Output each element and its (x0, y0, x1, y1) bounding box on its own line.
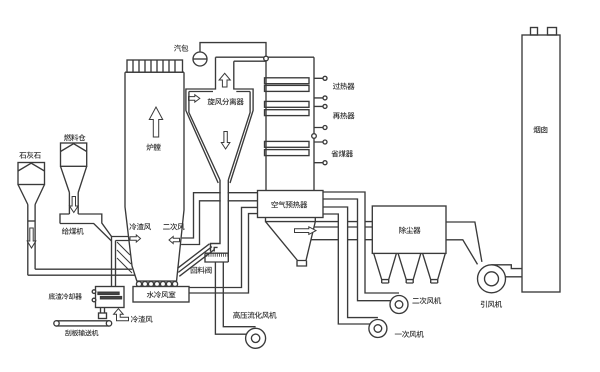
svg-text:引风机: 引风机 (480, 299, 502, 310)
cyclone gas outlet duct to backpass (wire) (216, 57, 315, 61)
water-cooled windbox 水冷风室 (133, 287, 189, 303)
svg-text:除尘器: 除尘器 (399, 225, 421, 236)
svg-text:刮板输送机: 刮板输送机 (65, 329, 99, 339)
slag cooler outlet (101, 308, 105, 314)
furnace up-flow arrow (149, 107, 162, 137)
limestone down-flow arrow (27, 228, 36, 248)
svg-text:一次风机: 一次风机 (395, 329, 425, 340)
svg-text:冷渣风: 冷渣风 (129, 222, 151, 233)
HP fluidizing fan 高压流化风机 (246, 328, 266, 348)
flue duct to dust collector (wire) (311, 222, 372, 240)
cyclone separator 旋风分离器 body (186, 57, 253, 183)
bubble caps on grate (136, 281, 177, 286)
cold slag air curved arrow (114, 309, 129, 321)
svg-text:空气预热器: 空气预热器 (271, 200, 308, 211)
hot air duct B to secondary fan (wire) (323, 192, 399, 301)
superheater taps (314, 76, 327, 100)
secondary fan 二次风机 (390, 296, 408, 314)
hot air duct A to primary fan (wire) (323, 207, 378, 324)
loop seal 回料阀 trough (205, 253, 228, 262)
ID fan outlet duct (wire) (492, 265, 523, 277)
HP fluidizing air duct (wire) (215, 262, 255, 334)
steam pipe drum to backpass (wire) (200, 43, 266, 57)
cyclone inlet arrow (right) (189, 95, 200, 102)
fuel down-flow arrow (70, 197, 79, 213)
svg-text:汽包: 汽包 (174, 43, 189, 54)
reheater taps (312, 104, 327, 138)
cold slag air arrow (right) (130, 235, 141, 242)
svg-text:底渣冷却器: 底渣冷却器 (48, 292, 82, 302)
node on backpass top (264, 56, 269, 61)
chimney 烟囱 (522, 35, 560, 292)
hot air duct B white mask (358, 199, 366, 301)
secondary air arrow (left) (169, 236, 180, 243)
primary fan 一次风机 (369, 320, 387, 338)
svg-text:高压流化风机: 高压流化风机 (233, 310, 277, 321)
svg-text:给煤机: 给煤机 (62, 226, 84, 237)
svg-text:二次风: 二次风 (163, 222, 185, 233)
furnace top hatched band (127, 60, 183, 72)
sloped grate hatch (117, 242, 132, 273)
chimney top vents (531, 28, 538, 36)
bed drain pipe to slag cooler (wire) (112, 237, 130, 287)
svg-text:二次风机: 二次风机 (412, 296, 442, 307)
dust collector 除尘器 (372, 206, 446, 253)
economizer taps (314, 140, 327, 165)
svg-text:过热器: 过热器 (333, 81, 355, 92)
backpass shaft walls (wire) (266, 57, 314, 190)
svg-text:石灰石: 石灰石 (19, 150, 41, 161)
scraper conveyor 刮板输送机 (54, 321, 112, 326)
cyclone down arrow (221, 132, 230, 150)
svg-text:炉膛: 炉膛 (146, 142, 161, 153)
steam drum 汽包 (193, 52, 207, 66)
svg-text:水冷风室: 水冷风室 (147, 290, 177, 301)
economizer coil bank (265, 141, 310, 155)
flue gas arrow (right) (295, 227, 317, 235)
dust collector hoppers (374, 253, 446, 283)
svg-text:再热器: 再热器 (333, 111, 355, 122)
limestone silo (18, 163, 45, 276)
slag cooler inlet taps (92, 290, 96, 294)
svg-text:省煤器: 省煤器 (331, 149, 353, 160)
svg-text:烟囱: 烟囱 (533, 125, 548, 136)
cyclone riser up arrow (219, 73, 230, 87)
coal feeder 给煤机 channel (60, 214, 112, 241)
ash hopper under backpass (266, 218, 316, 266)
collector outlet duct to ID fan (wire) (446, 222, 482, 264)
air preheater 空气预热器 (258, 191, 324, 218)
reheater coil bank (265, 101, 310, 115)
svg-text:冷渣风: 冷渣风 (131, 314, 153, 325)
svg-text:旋风分离器: 旋风分离器 (207, 97, 244, 108)
hot air duct A white mask (338, 214, 347, 324)
ID fan 引风机 (478, 265, 506, 293)
secondary air duct pair preheater to furnace (wire) (181, 193, 257, 245)
primary air duct pair preheater to windbox (wire) (189, 207, 258, 293)
bottom slag cooler (96, 287, 125, 308)
superheater coil bank (265, 78, 310, 92)
loop seal return incline to furnace (wire) (178, 244, 215, 276)
svg-text:回料阀: 回料阀 (190, 265, 212, 276)
limestone feed duct to furnace (wire) (28, 269, 135, 275)
furnace 炉膛 walls (125, 72, 184, 281)
fuel bin (61, 143, 87, 214)
cyclone dipleg (masks crossing wires) (211, 180, 229, 262)
svg-text:燃料仓: 燃料仓 (64, 133, 86, 144)
